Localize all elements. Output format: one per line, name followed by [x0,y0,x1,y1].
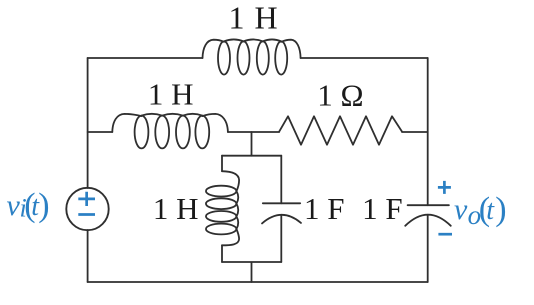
svg-text:t: t [486,195,495,226]
svg-text:1 H: 1 H [153,191,199,226]
svg-text:1 F: 1 F [362,191,403,226]
svg-text:v: v [7,189,21,222]
svg-text:): ) [495,191,506,228]
svg-text:1 H: 1 H [228,0,277,35]
svg-text:1 Ω: 1 Ω [317,77,363,112]
svg-text:v: v [454,193,468,226]
svg-text:): ) [38,187,49,224]
svg-text:1 F: 1 F [304,191,345,226]
svg-text:1 H: 1 H [148,76,194,111]
